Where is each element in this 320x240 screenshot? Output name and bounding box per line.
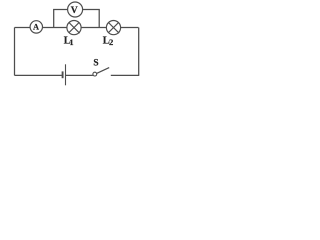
svg-text:V: V: [71, 5, 78, 16]
wire bottom-right segment from switch to corner: [111, 74, 139, 76]
wire top-left segment to ammeter: [15, 27, 31, 29]
wire right vertical side: [138, 28, 140, 76]
lamp L2: [106, 21, 120, 35]
op-amp? no: voltmeter V circle: [68, 2, 83, 17]
node A (voltmeter branch left junction): [53, 10, 55, 28]
svg-text:2: 2: [109, 37, 113, 47]
battery cell: long positive plate: [65, 64, 67, 85]
svg-text:A: A: [33, 23, 39, 32]
switch S pivot circle: [93, 72, 97, 76]
ammeter A: [30, 21, 42, 33]
wire voltmeter branch left horizontal: [53, 9, 68, 11]
svg-text:S: S: [93, 59, 98, 69]
wire L1 to L2: [81, 27, 106, 29]
svg-text:1: 1: [70, 38, 74, 47]
wire left vertical side: [14, 28, 16, 76]
lamp L1: [67, 21, 81, 35]
battery cell: short negative plate: [62, 71, 64, 78]
switch S arm: [97, 68, 110, 74]
wire bottom-left segment to battery: [15, 74, 62, 76]
wire ammeter to voltmeter-branch left node: [43, 27, 67, 29]
wire voltmeter branch right horizontal: [83, 9, 100, 11]
wire battery to switch: [66, 74, 93, 76]
wire L2 to top-right corner: [121, 27, 139, 29]
node B (voltmeter branch right junction): [98, 10, 100, 28]
